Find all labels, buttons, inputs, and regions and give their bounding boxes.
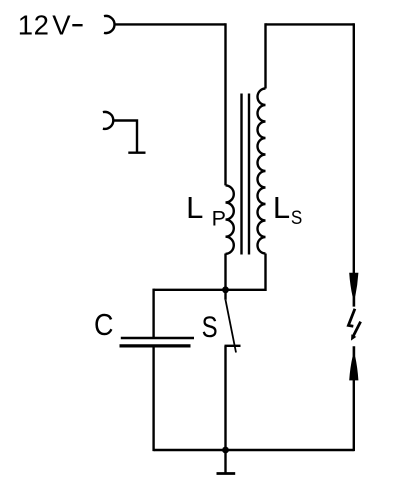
wire: capacitor top lead bbox=[152, 289, 154, 338]
wire: top horizontal secondary to spark gap bbox=[266, 23, 354, 25]
svg-text:12: 12 bbox=[18, 9, 50, 40]
minus sign after 12 V bbox=[72, 24, 82, 26]
svg-text:L: L bbox=[273, 190, 290, 225]
wire: right vertical from spark gap bottom bbox=[353, 380, 355, 452]
svg-text:V: V bbox=[52, 9, 71, 40]
wire: middle horizontal node wire bbox=[154, 289, 266, 291]
junction: ground node bbox=[222, 447, 229, 454]
ground bar for T2 bbox=[128, 151, 145, 153]
svg-text:S: S bbox=[291, 207, 302, 228]
inductor LP (primary winding) bbox=[226, 185, 234, 253]
capacitor C top plate bbox=[121, 337, 194, 339]
wire: secondary bottom vertical bbox=[264, 254, 266, 292]
wire: right vertical to spark gap top bbox=[353, 23, 355, 273]
switch S arm bbox=[226, 290, 237, 353]
spark gap lightning bolt arrowhead bbox=[351, 334, 356, 340]
wire: T2 to ground bbox=[113, 121, 137, 153]
wire: switch bottom vertical bbox=[224, 346, 226, 451]
svg-text:S: S bbox=[202, 309, 218, 343]
spark gap electrode (top) bbox=[349, 273, 358, 307]
ground bbox=[217, 450, 236, 474]
switch S fixed contact bbox=[225, 345, 241, 347]
transformer core line 2 bbox=[248, 94, 250, 255]
svg-text:L: L bbox=[186, 190, 203, 225]
terminal T1 (12 V input) bbox=[104, 16, 115, 33]
wire: bottom horizontal bbox=[154, 449, 354, 451]
spark gap electrode (bottom) bbox=[349, 346, 358, 380]
inductor LS (secondary winding) bbox=[258, 89, 266, 254]
transformer core line 1 bbox=[240, 94, 242, 255]
wire: T1 to primary top bbox=[114, 23, 225, 25]
junction: primary/capacitor/switch node bbox=[222, 286, 229, 293]
svg-text:P: P bbox=[212, 207, 226, 231]
spark gap lightning bolt bbox=[348, 309, 360, 337]
terminal T2 (points aux) bbox=[103, 112, 113, 129]
wire: primary bottom vertical bbox=[224, 254, 226, 290]
wire: secondary top vertical bbox=[264, 23, 266, 88]
wire: primary top vertical bbox=[224, 23, 226, 185]
svg-text:C: C bbox=[94, 308, 113, 342]
wire: capacitor bottom lead bbox=[152, 346, 154, 451]
capacitor C bottom plate bbox=[120, 344, 191, 347]
